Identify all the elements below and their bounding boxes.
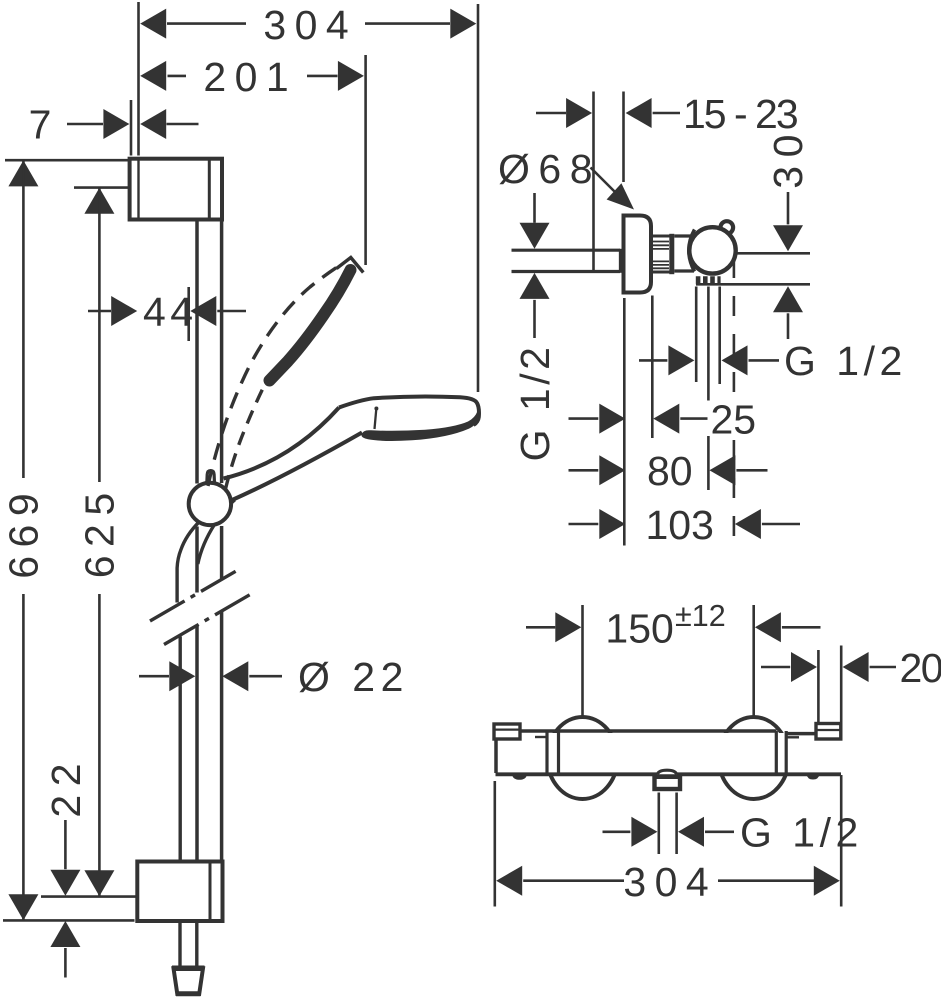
extension line right edge x=841.2 (840, 646, 843, 907)
svg-text:22: 22 (43, 755, 89, 818)
extension line right union center x=753.7 (752, 605, 755, 719)
extension line left union center x=582.5 (581, 605, 584, 719)
handle circle side view (689, 227, 735, 273)
svg-text:25: 25 (711, 396, 757, 442)
hand shower hose upper curve (177, 522, 214, 603)
dimension 304 top (140, 2, 476, 48)
hand shower solid handle (224, 408, 363, 507)
extension line 304 left x=494.8 (493, 781, 496, 907)
dimension 7 (29, 102, 199, 148)
dimension 80 (569, 448, 768, 494)
handle edge dashed line x=733.9 (733, 258, 736, 547)
30 reference line lower y=284.3 (696, 283, 810, 286)
dimension 625 vertical (76, 188, 122, 896)
dimension G 1/2 outlet side view (639, 338, 907, 384)
svg-text:±12: ±12 (675, 599, 726, 633)
hand shower dashed position head tip cap (337, 258, 364, 273)
outlet extension line left x=658.8 (657, 793, 660, 855)
dimension 304 bottom (496, 859, 840, 905)
hand shower dashed position spray face band (270, 270, 351, 381)
right union nut circle (719, 717, 789, 799)
wall surface line below escutcheon (623, 298, 626, 546)
hand shower solid head outline (339, 396, 479, 425)
svg-text:30: 30 (765, 126, 811, 189)
mixer bar outline (496, 731, 842, 774)
669 top reference line y=160 (5, 159, 129, 162)
left union double lines (547, 731, 559, 774)
dimension 25 (569, 396, 757, 442)
G 1/2 supply dimension arrows left (512, 193, 558, 461)
left foot (512, 775, 527, 780)
svg-text:625: 625 (76, 484, 122, 578)
hand shower dashed position back outline (208, 268, 337, 487)
svg-text:G 1/2: G 1/2 (512, 344, 558, 462)
hose conical end fitting (172, 968, 205, 994)
30 reference line upper y=253.3 (737, 252, 810, 255)
outlet extension line right x=676.6 (675, 793, 678, 855)
svg-text:201: 201 (203, 54, 297, 100)
tube break mark upper (150, 571, 237, 622)
handle safety clip ring (721, 221, 734, 234)
dimension 20 (761, 645, 941, 691)
right foot (807, 775, 820, 780)
wall bar top mount (130, 159, 222, 220)
dimension 103 (569, 502, 801, 548)
dimension 669 vertical (0, 160, 46, 920)
625 top reference line y=188 (74, 186, 129, 189)
hand shower dashed position front outline (226, 381, 267, 489)
valve ribbed nut (653, 234, 672, 274)
hand shower solid head spray face (361, 412, 479, 441)
right wall flange tab (816, 724, 841, 740)
outlet left edge line x=696.2 (695, 287, 698, 383)
svg-text:80: 80 (647, 448, 693, 494)
extension line escutcheon depth x=652.3 (651, 296, 654, 439)
dimension 150 plus-minus 12 (526, 599, 821, 651)
svg-text:304: 304 (623, 859, 717, 905)
svg-text:150: 150 (605, 605, 673, 651)
svg-text:44: 44 (143, 289, 198, 335)
625 bottom reference line y=896.6 (41, 895, 136, 898)
left union nut circle (548, 717, 618, 799)
hand shower hose lower straight (180, 625, 197, 861)
outlet hatch band (696, 276, 721, 284)
outlet dome (658, 770, 677, 774)
slider holder circle (189, 483, 231, 525)
wall bar bottom bracket (137, 862, 222, 922)
handle front face arc (689, 230, 695, 272)
extension line 44 right x=188.7 (187, 287, 190, 341)
dimension 44 (88, 289, 246, 335)
right union double lines (776, 731, 786, 774)
hose below bracket (180, 923, 197, 966)
669 bottom reference line y=920.4 (3, 919, 135, 922)
valve body section (674, 236, 694, 271)
dimension 22 bottom (43, 755, 89, 978)
svg-text:103: 103 (646, 502, 714, 548)
svg-text:G 1/2: G 1/2 (740, 810, 863, 856)
wall surface line x=593.5 (592, 92, 595, 274)
svg-text:669: 669 (0, 485, 46, 579)
outlet center line x=708.4 (707, 287, 710, 491)
mixer bar body fill (499, 733, 839, 773)
extension line 304 right x=478 (477, 4, 480, 392)
right block top edge (786, 732, 817, 736)
extension line 7 left x=131 (130, 100, 133, 156)
dimension diameter 22 (139, 654, 409, 700)
svg-text:7: 7 (29, 102, 52, 148)
extension line 201 right x=366 (364, 55, 367, 265)
wall bar rail right line (220, 222, 224, 861)
outlet collar (655, 777, 681, 789)
label diameter 68 with leader arrow (498, 146, 634, 210)
wall bar rail left line (195, 222, 199, 861)
left wall flange tab (494, 724, 520, 739)
svg-text:Ø68: Ø68 (498, 146, 601, 192)
svg-text:Ø 22: Ø 22 (298, 654, 409, 700)
right block tick (788, 736, 800, 738)
svg-text:304: 304 (263, 2, 357, 48)
slider holder knob (207, 471, 215, 488)
extension line wall/left reference x=138 (137, 2, 140, 156)
dimension 15 - 23 (536, 91, 797, 137)
escutcheon side view (624, 216, 652, 293)
tube break mark lower (164, 594, 251, 645)
extension line tile face x=623.5 (622, 92, 625, 183)
left block tick (535, 736, 547, 738)
outlet right edge line x=719.7 (718, 287, 721, 385)
left block left edge (494, 739, 498, 773)
dimension 201 (140, 54, 364, 100)
svg-text:20: 20 (900, 645, 941, 691)
supply pipe side view (512, 249, 621, 273)
extension line 20 left x=818.4 (817, 650, 820, 722)
dimension 30 (765, 126, 811, 339)
hand shower head joint tick (374, 407, 378, 430)
svg-text:G 1/2: G 1/2 (784, 338, 907, 384)
dimension G 1/2 front view (603, 810, 863, 856)
